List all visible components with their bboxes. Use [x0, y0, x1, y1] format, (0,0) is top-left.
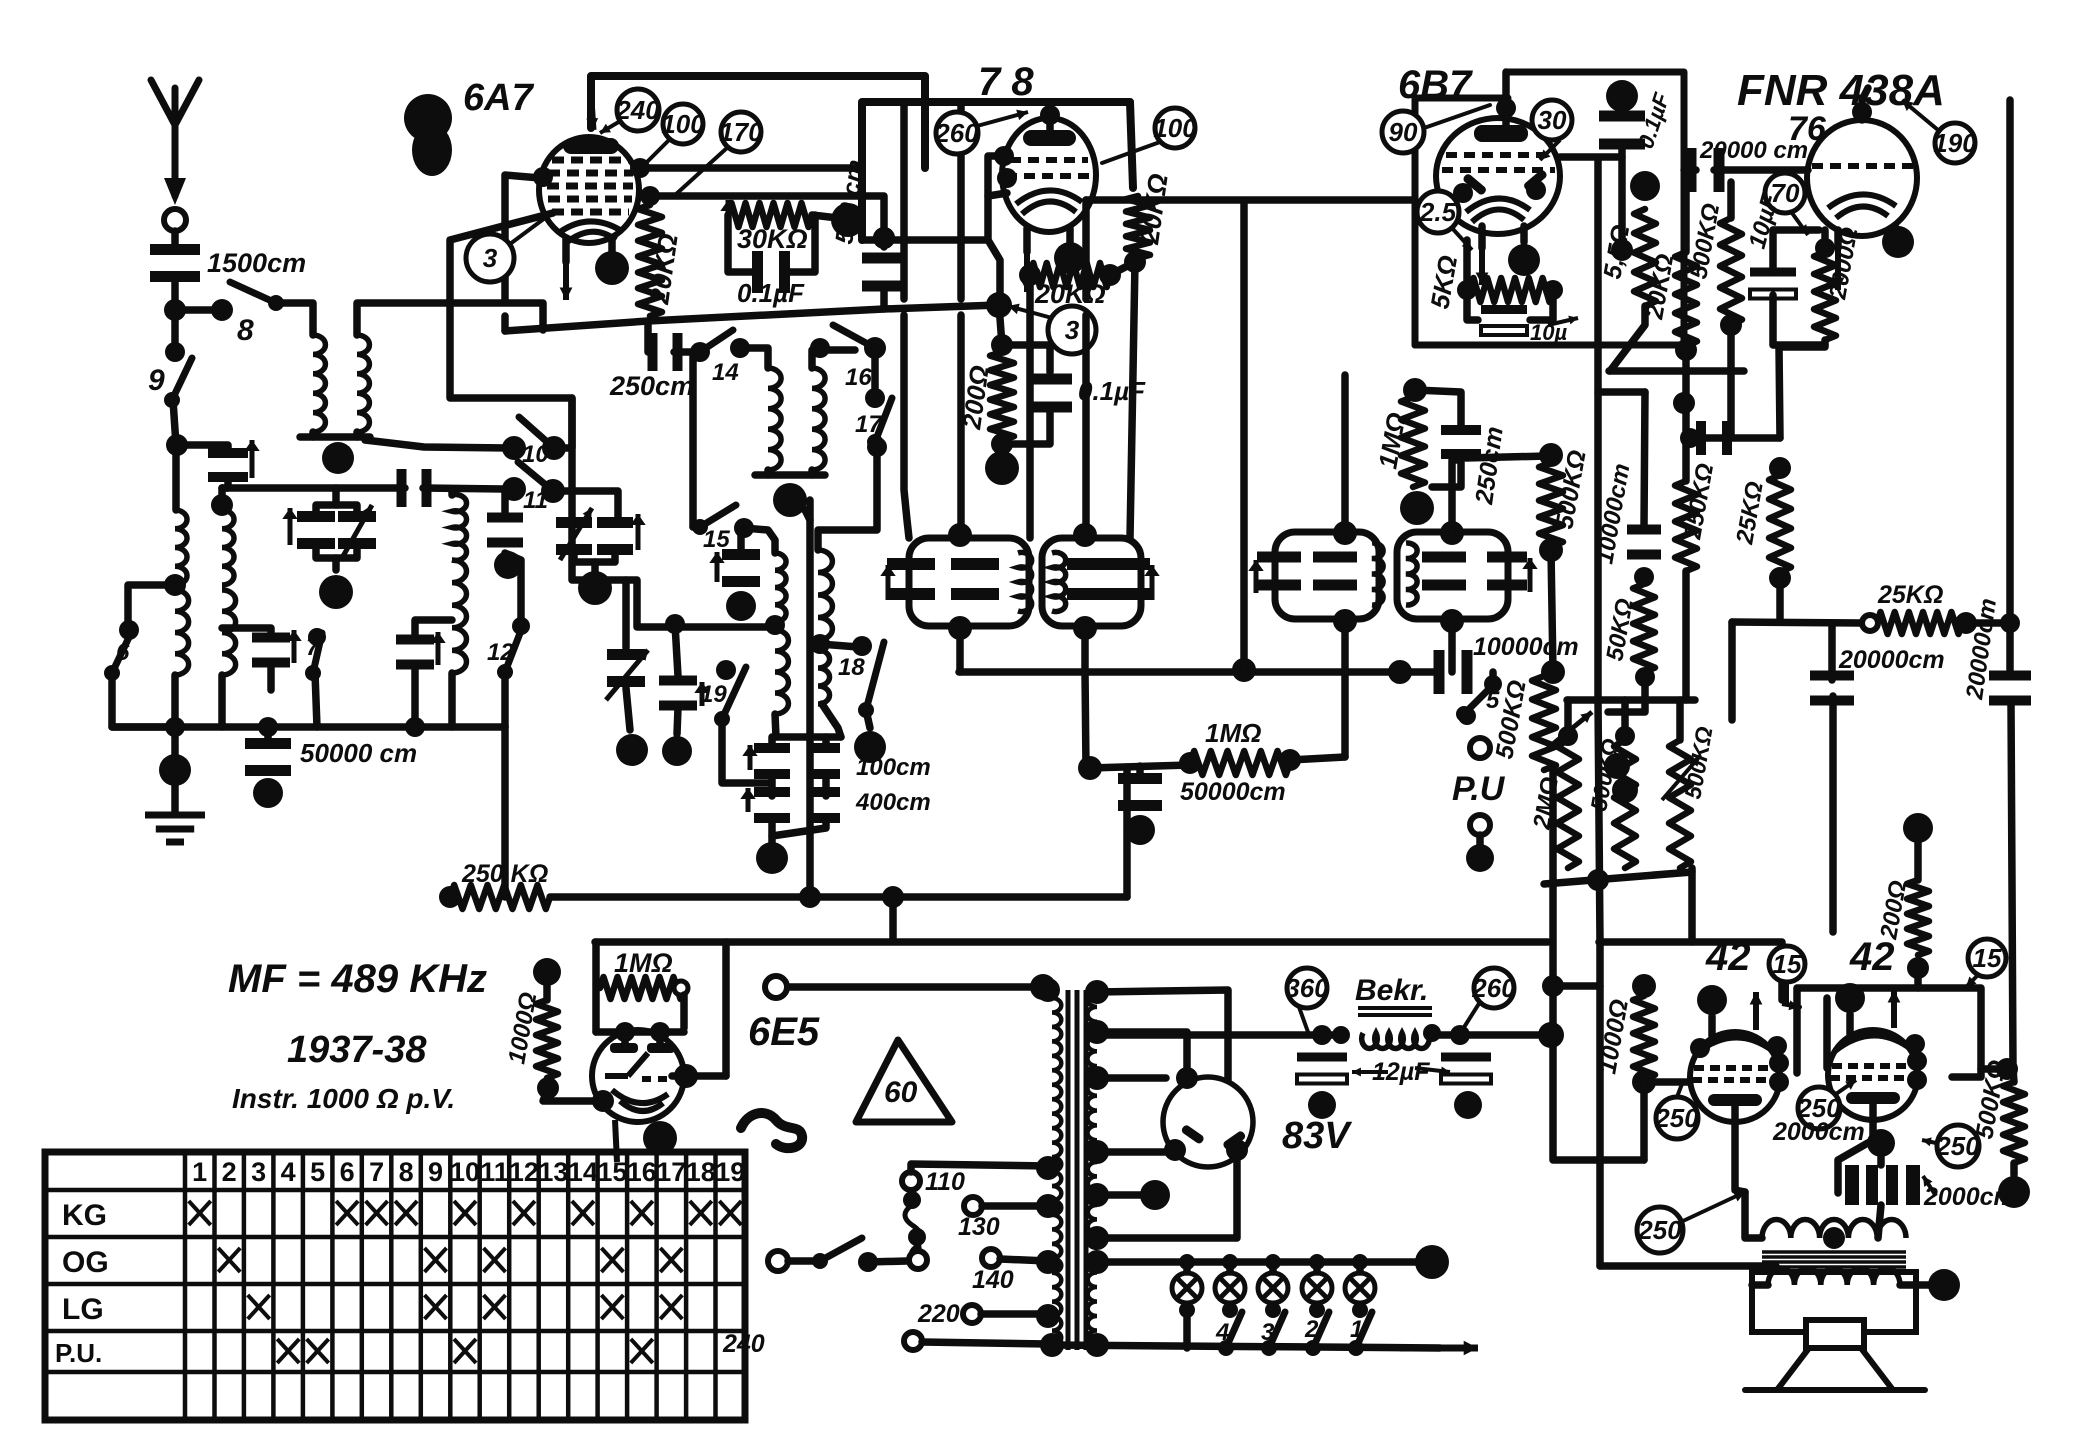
dot 500cm: [873, 227, 895, 249]
42a pin l1: [1690, 1038, 1710, 1058]
svg-text:360: 360: [1285, 973, 1329, 1003]
switch 16: [833, 325, 883, 356]
circle 250 c: [1935, 1125, 1980, 1167]
rail x1553 lower: [1553, 1035, 1644, 1160]
tube left lead low: [501, 316, 509, 331]
osc coil hook: [812, 350, 855, 368]
svg-text:4: 4: [1215, 1319, 1229, 1346]
IF1 trim arrow: [880, 565, 895, 600]
voice coil blob: [1928, 1269, 1960, 1301]
lamp bottom dot 5: [1352, 1302, 1368, 1318]
L5 bottom stub: [218, 675, 226, 727]
capacitor 50000cm b: [1118, 773, 1162, 811]
trimmer 11b: [487, 513, 523, 548]
svg-text:100: 100: [1153, 113, 1197, 143]
sw5 stub: [1489, 672, 1497, 682]
6B7 top cap stub: [1502, 72, 1510, 131]
trimmer pair blob: [319, 575, 353, 609]
avc drop x1086: [1085, 672, 1086, 768]
resistor 500K f: [1669, 740, 1691, 868]
IF2 trim cap: [1257, 552, 1301, 591]
svg-text:400cm: 400cm: [855, 789, 931, 816]
speaker voice coil: [1768, 1268, 1900, 1285]
coil L3: [452, 495, 467, 561]
5K left dot: [1457, 280, 1477, 300]
pointer 15b: [1966, 975, 1978, 987]
pointer 250d: [1683, 1192, 1745, 1221]
svg-text:17: 17: [656, 1157, 686, 1187]
250cm branch: [1415, 390, 1461, 425]
6E5 plate dot: [650, 1022, 670, 1042]
osc blob to x810: [790, 500, 810, 520]
padder arrow 2: [740, 788, 755, 812]
pointer 3b: [1008, 304, 1052, 318]
blob 30K: [831, 203, 865, 237]
IF2 coil C: [1372, 543, 1383, 605]
canD riser: [1452, 460, 1461, 533]
svg-text:240: 240: [722, 1330, 765, 1358]
6B7 pin a: [1453, 183, 1473, 203]
svg-text:0.1µF: 0.1µF: [737, 278, 805, 308]
B+ junction dot: [1538, 1022, 1564, 1048]
svg-text:25KΩ: 25KΩ: [1877, 581, 1943, 609]
6B7 box top right: [1415, 72, 1684, 345]
wire y455: [1466, 456, 1548, 458]
speaker cone: [1777, 1348, 1893, 1390]
transformer primary: [1052, 998, 1061, 1345]
tube blob: [595, 251, 629, 285]
ink blot: [404, 94, 452, 142]
tube 42 b: [1828, 1030, 1918, 1120]
blob sw11b: [494, 551, 522, 579]
svg-text:18: 18: [838, 654, 865, 681]
table header numbers: [192, 1157, 745, 1187]
rail x1600 out: [1596, 942, 1604, 1266]
padder col tops r: [822, 737, 830, 746]
tube 6B7: [1436, 118, 1560, 234]
6E5 grid dot: [615, 1022, 635, 1042]
trimmer D arrow: [342, 505, 372, 558]
25Kv to y621: [1776, 578, 1784, 621]
out prim ct: [1823, 1227, 1845, 1249]
pot arrow: [1548, 712, 1592, 748]
1000b to grid: [1644, 1078, 1690, 1086]
2M top wire: [1564, 700, 1572, 736]
pointer 30: [1540, 140, 1560, 160]
resistor 1000 a: [536, 1000, 558, 1078]
primary dot 140: [1036, 1250, 1060, 1274]
switch 10: [519, 417, 562, 456]
rail x2010: [2006, 100, 2014, 670]
trimmer arrow: [244, 440, 259, 478]
svg-text:6E5: 6E5: [748, 1010, 820, 1054]
resistor 1M b: [600, 977, 684, 999]
IF2D bus dot: [1388, 660, 1412, 684]
resistor 1M vert: [1401, 397, 1425, 487]
bottom rail arrow: [1400, 1341, 1478, 1356]
pu stub: [1476, 835, 1484, 845]
osc L8 stub: [808, 470, 816, 475]
pointer 100: [643, 139, 670, 166]
tube 42 a: [1690, 1032, 1780, 1122]
blob 200: [985, 451, 1019, 485]
circle 3b: [1048, 306, 1096, 354]
svg-text:16: 16: [627, 1157, 657, 1187]
2000 top dot: [1815, 238, 1835, 258]
switch 12 wire: [501, 672, 509, 727]
sec tap 1078: [1097, 1074, 1166, 1082]
pu block drop: [1688, 868, 1696, 942]
resistor 1M horiz: [1190, 751, 1290, 775]
svg-text:42: 42: [1705, 935, 1751, 979]
x877 to coil2: [818, 447, 877, 550]
bus y897 right: [889, 897, 897, 940]
svg-text:6: 6: [340, 1157, 355, 1187]
switch 12: [497, 628, 522, 680]
1M blob: [1400, 491, 1434, 525]
42b cathode lead: [1869, 1104, 1877, 1140]
tube 6A7: [539, 137, 639, 243]
pointer 360: [1299, 1007, 1308, 1032]
switch table grid: [45, 1152, 745, 1420]
transformer secondary HT: [1088, 992, 1098, 1155]
PU terminal 1: [1470, 738, 1490, 758]
branch x693: [689, 352, 697, 527]
osc coil L9 lower: [775, 630, 788, 714]
wire trim cap down: [568, 491, 576, 520]
IF1B trim arrow: [1144, 565, 1159, 600]
L5 top junction: [211, 494, 233, 516]
PU terminal 2: [1470, 815, 1490, 835]
20Kc bottom dot: [1675, 339, 1697, 361]
svg-text:5: 5: [1486, 687, 1500, 714]
76 top stub: [1862, 88, 1868, 120]
switch 19: [714, 667, 746, 727]
voice coil right: [1900, 1281, 1930, 1289]
out box2 inner: [1823, 998, 1831, 1068]
table row labels: [55, 1199, 109, 1368]
padder trimmer B: [597, 517, 633, 555]
sw18 blob: [854, 731, 886, 763]
fuse to ring: [917, 1240, 918, 1250]
svg-text:100cm: 100cm: [856, 754, 931, 781]
wire switch9 down: [173, 400, 176, 510]
svg-text:20000cm: 20000cm: [1838, 646, 1945, 674]
switch 14: [692, 330, 733, 360]
25K left ring: [1862, 615, 1878, 631]
switch 14 pivot: [690, 342, 710, 362]
svg-text:5: 5: [310, 1157, 325, 1187]
resistor 1000 b: [1633, 996, 1655, 1079]
trimmer A arrow: [560, 508, 592, 560]
svg-text:1MΩ: 1MΩ: [1205, 718, 1261, 748]
lamp bottom dot 3: [1265, 1302, 1281, 1318]
resistor 2000: [1814, 252, 1836, 340]
tap 110 ring: [902, 1172, 920, 1190]
box2 to rail: [1981, 1065, 2013, 1073]
dial lamp 5: [1345, 1273, 1375, 1303]
svg-text:15: 15: [1773, 949, 1802, 979]
trimmer C: [297, 511, 335, 549]
padder bottom: [772, 820, 826, 836]
IF2C plate riser: [1341, 375, 1349, 533]
switch 17 top: [865, 388, 885, 408]
2000 bottom: [1779, 340, 1825, 347]
capacitor 0.1uF b: [1028, 374, 1072, 413]
svg-text:260: 260: [1471, 973, 1516, 1003]
rail x904 upper: [900, 104, 908, 299]
L9 mid dot: [765, 615, 785, 635]
200b bottom: [1914, 968, 1922, 988]
lamp dot 5: [1352, 1254, 1368, 1270]
svg-text:14: 14: [568, 1157, 598, 1187]
resistor 500K a: [1539, 463, 1563, 546]
wire bus to 200: [999, 305, 1002, 345]
transformer secondary fil: [1088, 1162, 1097, 1248]
tube 76: [1807, 120, 1917, 236]
pu dot top: [1458, 707, 1476, 725]
sec dot 2: [1085, 1020, 1109, 1044]
IF1 bottom stub: [956, 628, 964, 672]
6B7 top dot: [1496, 98, 1516, 118]
trimmer 12 arrow: [430, 632, 445, 665]
10uFb top: [1769, 230, 1777, 272]
lamp bottom dot 1: [1179, 1302, 1195, 1318]
1000b bottom dot: [1632, 1070, 1656, 1094]
sec dot lamp: [1085, 1250, 1109, 1274]
resistor 50K b: [1633, 584, 1655, 672]
svg-text:130: 130: [958, 1213, 1000, 1241]
10uF arrow: [1548, 316, 1578, 325]
wire y168: [637, 164, 862, 172]
svg-text:220: 220: [917, 1300, 960, 1328]
dot 200 bottom: [991, 433, 1013, 455]
rail to 500Kg: [2013, 1069, 2014, 1082]
svg-text:250cm: 250cm: [609, 371, 694, 401]
box 78 right edge: [1130, 102, 1133, 188]
dot 250k right: [799, 886, 821, 908]
branch 250cm: [648, 321, 652, 352]
coil L6: [452, 560, 466, 673]
1000a bottom: [543, 1088, 603, 1101]
node L arrow: [720, 200, 735, 214]
42b arrow: [1888, 990, 1901, 1028]
wire trimmer down: [222, 480, 228, 488]
500Ke blob: [1612, 777, 1638, 803]
lamp rail: [1097, 1258, 1420, 1266]
bus joint x415: [405, 717, 425, 737]
10000c bottom dot: [1634, 567, 1654, 587]
lamp switch 4: [1218, 1312, 1242, 1356]
svg-text:2000cm: 2000cm: [1923, 1183, 2016, 1211]
osc grid line: [572, 520, 770, 627]
resistor 250K b: [1675, 481, 1697, 571]
pointer 190: [1902, 100, 1938, 130]
coil L4 lower: [175, 590, 189, 675]
osc coil L9 upper: [775, 553, 786, 622]
capacitor 50000cm: [245, 738, 291, 776]
circle 15a: [1769, 946, 1805, 982]
capacitor 12uF b: [1441, 1053, 1491, 1084]
svg-text:Bekr.: Bekr.: [1355, 974, 1428, 1007]
svg-text:6: 6: [116, 639, 130, 666]
IF2C top dot: [1333, 521, 1357, 545]
svg-text:6A7: 6A7: [463, 77, 535, 119]
svg-text:11: 11: [523, 487, 548, 514]
resistor 20K vert: [1126, 196, 1150, 258]
sec to plate 2: [1097, 1032, 1187, 1076]
76 top dot: [1852, 102, 1872, 122]
rail x1130: [1130, 262, 1135, 538]
circle 250 b: [1796, 1087, 1841, 1129]
main bus: [505, 305, 999, 331]
primary dot 130: [1036, 1194, 1060, 1218]
out bottom rail: [1600, 1262, 1776, 1270]
circle 15b: [1968, 939, 2006, 977]
grid wire vertical: [450, 213, 572, 448]
mains switch: [812, 1238, 862, 1269]
coil L5 upper: [222, 510, 234, 585]
box2 pins wire: [1952, 1069, 1981, 1077]
anode lead2: [608, 238, 616, 252]
500Kc bottom dot: [1720, 314, 1742, 336]
svg-text:190: 190: [1933, 128, 1977, 158]
switch 7 down: [315, 673, 317, 727]
bus dot: [986, 292, 1012, 318]
1Mh right wire: [1290, 757, 1345, 760]
circle 2.5: [1417, 191, 1459, 233]
trimmer 19b down: [626, 688, 630, 730]
L4 tap: [164, 574, 186, 596]
1000b down: [1640, 1082, 1648, 1160]
svg-text:10: 10: [450, 1157, 480, 1187]
42b pin r1: [1905, 1034, 1925, 1054]
IF2 trim arrow: [1248, 560, 1263, 593]
svg-text:19: 19: [700, 681, 727, 708]
x1617 blob: [1604, 753, 1630, 779]
cap01b bracket bottom: [1002, 410, 1050, 444]
01c down: [1618, 146, 1626, 252]
grid cap blob: [1867, 1129, 1895, 1157]
wire 30K to blob: [812, 215, 838, 218]
lamp switch 3: [1261, 1312, 1285, 1356]
out wire stub: [1553, 982, 1600, 990]
switch 7: [305, 633, 322, 681]
wire to switch 8: [175, 306, 222, 314]
transformer secondary lamp: [1088, 1258, 1097, 1345]
lamp dot 3: [1265, 1254, 1281, 1270]
cap01 bracket L: [728, 215, 759, 272]
resistor 2M: [1557, 740, 1579, 868]
cathode arrow: [560, 252, 573, 300]
42b cath wire: [1838, 1140, 1873, 1193]
avc dot: [1078, 756, 1102, 780]
trimmer pair stub: [332, 558, 340, 570]
wire L2 bottom: [353, 432, 361, 437]
choke dot R: [1423, 1024, 1441, 1042]
cap 50000b stub: [1136, 766, 1144, 775]
83 fil dot a: [1164, 1139, 1186, 1161]
ct blob: [1140, 1180, 1170, 1210]
padder mid L: [768, 776, 776, 796]
junction: [164, 299, 186, 321]
pointer 2.5: [1452, 228, 1472, 250]
IF2D bottom stub: [1448, 621, 1456, 672]
trimmer 19b stub: [622, 580, 630, 648]
svg-text:9: 9: [428, 1157, 443, 1187]
01c blob: [1606, 80, 1638, 112]
wire 250k right run: [810, 893, 1127, 901]
6E5 pin caps: [610, 1043, 675, 1053]
B+ line: [1097, 1031, 1341, 1039]
triangle 60: [856, 1040, 952, 1122]
78 grid drop: [988, 196, 1000, 303]
trimmer pair bracket: [316, 546, 357, 558]
antenna: [151, 80, 199, 205]
sec fil wire: [1097, 1148, 1173, 1156]
capacitor 0.1uF a: [752, 251, 790, 293]
cap 20000c drop: [1829, 696, 1837, 932]
svg-text:Instr. 1000 Ω p.V.: Instr. 1000 Ω p.V.: [232, 1083, 455, 1114]
tap 240 ring: [904, 1332, 922, 1350]
70 wire: [1773, 226, 1819, 234]
capacitor 1500cm: [150, 244, 200, 282]
transformer core: [1068, 990, 1086, 1350]
1M box bottom: [596, 1028, 684, 1036]
rail x961 upper: [957, 104, 965, 299]
resistor 500K g: [2003, 1082, 2025, 1163]
12uF arrow L: [1352, 1068, 1388, 1077]
PU bottom dot: [1466, 844, 1494, 872]
6B7 cathode arrow: [1476, 240, 1489, 285]
6E5 line dot: [1030, 974, 1056, 1000]
bus y672: [959, 668, 1438, 676]
svg-text:P.U: P.U: [1452, 770, 1506, 808]
rail 1686 top: [1682, 165, 1690, 252]
76 cathode arrow: [1832, 242, 1845, 290]
osc coil L7: [768, 368, 781, 470]
IF2C bottom dot: [1333, 609, 1357, 633]
5K left wire: [1463, 240, 1471, 290]
cap 50000 blob: [253, 778, 283, 808]
tap 130 wire: [982, 1202, 1048, 1210]
6E5 right pin: [674, 1064, 698, 1088]
lamp lead 1: [1183, 1262, 1191, 1272]
capacitor 0.1uF c: [1599, 111, 1645, 150]
x1780 drop: [1779, 347, 1780, 438]
pointer 3a: [510, 212, 553, 244]
gnd bus joint L4: [165, 717, 185, 737]
6B7 blob: [1508, 244, 1540, 276]
osc trimmer blob: [726, 591, 756, 621]
circle 100: [661, 104, 705, 144]
svg-text:50000 cm: 50000 cm: [300, 738, 417, 768]
IF2D cap1: [1422, 552, 1466, 591]
wire y200: [1086, 196, 1415, 204]
rail x1030: [1026, 275, 1034, 538]
switch 18: [858, 642, 884, 718]
svg-text:30KΩ: 30KΩ: [737, 224, 808, 254]
78 anode lead: [1066, 228, 1074, 242]
2M top dot: [1558, 726, 1578, 746]
6E5 long line: [788, 983, 1043, 991]
svg-text:250 KΩ: 250 KΩ: [461, 860, 548, 888]
svg-text:250: 250: [1935, 1131, 1980, 1161]
6B7 cathode lead: [1478, 226, 1486, 248]
78 cathode lead: [1023, 228, 1031, 252]
switch 6 top contact: [119, 620, 139, 640]
cap01b bracket top: [1002, 345, 1050, 372]
